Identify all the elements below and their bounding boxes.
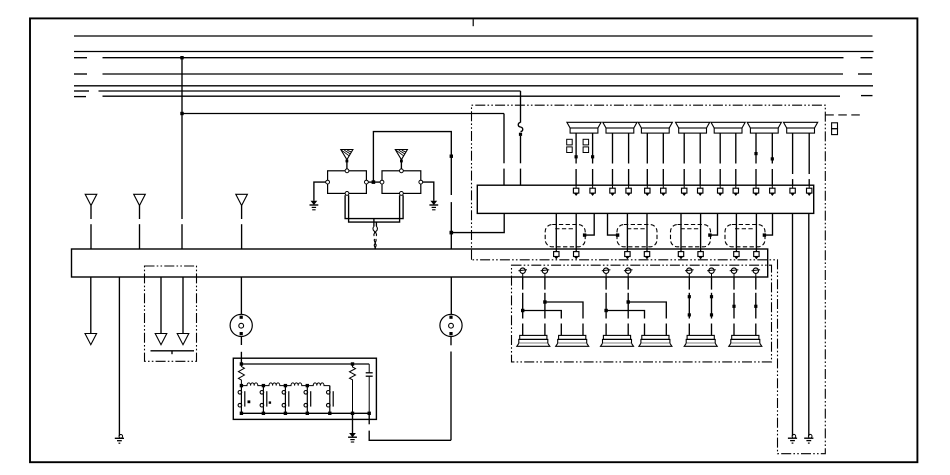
inline terminal node [688, 295, 691, 298]
component boundary injectors (dash-dot) [512, 265, 772, 362]
shield capsule inner dash [627, 228, 647, 230]
wire shielded pair [680, 213, 682, 250]
choke L1 [241, 383, 263, 386]
splice node S2 [591, 155, 594, 158]
wire shielded pair [575, 213, 577, 250]
wire RY1 top [346, 160, 348, 169]
junction node chain [450, 231, 454, 235]
rail node [306, 384, 309, 387]
ground G4 [348, 433, 357, 442]
connector pin upper [698, 249, 703, 259]
wire drop to ECM pin B [520, 136, 522, 163]
choke L4 [307, 383, 330, 386]
rail node [351, 412, 354, 415]
wire coil lead [592, 133, 594, 163]
wire coil lead [808, 133, 810, 174]
wire injector 3 lower [605, 324, 607, 336]
bus wire B4 [103, 73, 844, 75]
wire element top [306, 386, 308, 391]
element marker [269, 401, 271, 403]
wire shielded pair [700, 213, 702, 250]
injector INJ1 [517, 335, 550, 346]
wire drop to ECM pin A lower [503, 169, 505, 186]
connector arrow A4 [85, 334, 97, 345]
ECM pin 8 [698, 185, 703, 196]
wire element bottom [262, 407, 264, 414]
wire injector lower [688, 324, 690, 336]
filter mid rail node [240, 384, 243, 387]
ground G3 [115, 435, 124, 444]
wire injector 1 upper [522, 277, 524, 290]
rail node [284, 412, 287, 415]
injector INJ4 [639, 335, 672, 346]
inline terminal node [754, 305, 757, 308]
wire coil lead [771, 133, 773, 163]
wire element top [240, 386, 242, 391]
splice node S3 [754, 152, 757, 155]
ECM pin 1 [573, 185, 578, 196]
wire injector lower [711, 324, 713, 336]
bus wire B1 [74, 35, 873, 37]
rail node [368, 412, 371, 415]
wire coil lead [719, 133, 721, 163]
wire shield lead 1 [160, 277, 162, 334]
ignition coil M4 [676, 122, 710, 133]
junction node relay link [372, 180, 376, 184]
wire coil lead lower [792, 179, 794, 185]
noise condenser NC2 [440, 314, 462, 336]
wire drop to ECM pin A [503, 114, 505, 164]
splice node chain [450, 155, 453, 158]
wire arrow lead [139, 206, 141, 220]
wire injector 1 mid [522, 293, 524, 319]
wire injector 2 lower [544, 324, 546, 336]
wire condenser 1 lower [240, 337, 242, 346]
bus wire B3 right stub [861, 57, 873, 59]
connector pin lower [624, 268, 633, 277]
bus wire B6 stub [74, 90, 89, 92]
relay pin [345, 169, 349, 173]
choke L3 [285, 383, 307, 386]
shield capsule inner dash [735, 228, 755, 230]
injector INJ6 [729, 335, 762, 346]
wire shield drain [710, 213, 718, 235]
component boundary ECM (dash-dot) [472, 105, 826, 454]
wire injector mid [711, 293, 713, 319]
wire horizontal to ECM [182, 113, 504, 115]
wire vertical feed lower [181, 224, 183, 249]
connector arrow A2 [134, 194, 146, 205]
splice node S4 [771, 157, 774, 160]
wire arrow lead [241, 206, 243, 220]
relay pin [365, 180, 369, 184]
junction node feed [180, 112, 183, 115]
connector pin upper [574, 249, 579, 259]
border tick mark [472, 19, 474, 26]
wire coil lead lower [771, 169, 773, 185]
wire element bottom [329, 407, 331, 414]
wire injector 5/6 upper [688, 277, 690, 290]
shield capsule SH1 [545, 225, 585, 247]
wire coil lead lower [755, 169, 757, 185]
wire coil lead lower [592, 169, 594, 185]
main relay RY1 box [328, 171, 367, 194]
wire shielded pair [555, 213, 557, 250]
twisted pair bracket outer [345, 195, 403, 218]
wire element bottom [284, 407, 286, 414]
wire to condenser 2 [450, 277, 452, 314]
wire injector 5/6 upper [711, 277, 713, 290]
wire to condenser 1 [240, 277, 242, 314]
wire injector 3 mid [605, 293, 607, 319]
connector pin lower [730, 268, 739, 277]
ECM pin 6 [661, 185, 666, 196]
wire coil lead lower [719, 169, 721, 185]
wire injector mid [733, 293, 735, 319]
injector INJ3 [601, 335, 634, 346]
wire condenser 2 lower2 [450, 352, 452, 441]
antenna symbol RY1 (hatched) [341, 150, 353, 160]
connector pin upper [734, 249, 739, 259]
wire ECM ground 1 [792, 213, 794, 436]
wire injector lower [733, 324, 735, 336]
connector pin upper [554, 249, 559, 259]
choke tail corner [329, 386, 331, 390]
twisted pair upper [373, 226, 378, 236]
ignition coil M3 [638, 122, 672, 133]
wire drop to ECM pin B lower [520, 169, 522, 186]
fuse element [518, 122, 523, 131]
wire shielded pair [755, 213, 757, 250]
ECM pin 12 [770, 185, 775, 196]
wire filter ground [352, 413, 354, 433]
ignition coil M6 [747, 122, 781, 133]
capacitor C1 [366, 364, 373, 413]
suppressor element P4 [304, 390, 311, 407]
twisted pair bracket inner [349, 195, 400, 222]
wire coil lead [646, 133, 648, 163]
noise condenser NC1 [230, 314, 252, 336]
wire to connector arrow [90, 277, 92, 334]
wire coil lead lower [646, 169, 648, 185]
wire crossover A2 [545, 302, 583, 319]
bus wire B6 [99, 90, 521, 92]
wire coil lead [612, 133, 614, 163]
wire injector 4 lower [627, 324, 629, 336]
wire injector mid [688, 293, 690, 319]
shield bar tick [171, 351, 173, 354]
boundary stub (dash) [825, 114, 861, 116]
splice node S1 [575, 155, 578, 158]
rail node [328, 412, 331, 415]
wire injector 3 upper [605, 277, 607, 290]
relay pin [400, 192, 404, 196]
bus wire B4 stub [74, 73, 87, 75]
bus wire B3 stub [74, 57, 87, 59]
wire chain lower [450, 202, 452, 249]
suppressor element P3 [282, 390, 289, 407]
connector pin lower [752, 268, 761, 277]
wire arrow lead lower [139, 224, 141, 249]
wire injector mid [755, 293, 757, 319]
bus wire B4 right stub [858, 73, 872, 75]
connector pin lower [518, 268, 527, 277]
injector INJ2 [556, 335, 589, 346]
connector arrow A5 [155, 334, 167, 345]
junction node on B3 [180, 56, 183, 59]
ground G-RY1 [310, 201, 319, 210]
wire element top [284, 386, 286, 391]
wire coil lead lower [662, 169, 664, 185]
shield capsule inner dash [555, 228, 575, 230]
connector arrow A3 [236, 194, 248, 205]
wire injector 4 upper [627, 277, 629, 290]
wire relay link up-over [373, 132, 451, 195]
ECM pin 4 [626, 185, 631, 196]
ECM pin 5 [645, 185, 650, 196]
wire coil lead [628, 133, 630, 163]
wire T2 left lower [560, 324, 562, 336]
wire element top [262, 386, 264, 391]
wire shielded pair [646, 213, 648, 250]
connector pin lower [541, 268, 550, 277]
bus wire B3 [103, 57, 844, 59]
bus wire B2 [74, 51, 874, 53]
resistor R1 (zigzag) [238, 364, 244, 386]
relay pin [345, 192, 349, 196]
wire T4 right lower [665, 324, 667, 336]
wire condenser 2 lower [450, 337, 452, 346]
wire coil lead [662, 133, 664, 163]
wire injector lower [755, 324, 757, 336]
wire T4 left lower [644, 324, 646, 336]
ignition coil M7 [784, 122, 818, 133]
wire capacitor out [368, 413, 370, 424]
wire coil lead lower [808, 179, 810, 185]
wire relay link [368, 181, 380, 183]
relay pin [400, 169, 404, 173]
main relay RY2 box [382, 171, 421, 194]
twisted pair lower [374, 239, 376, 249]
rail node [262, 384, 265, 387]
wire condenser 1 lower2 [240, 352, 242, 364]
connector pin upper [644, 249, 649, 259]
wire coil lead [755, 133, 757, 163]
ground G-RY2 [429, 201, 438, 210]
wire coil lead [699, 133, 701, 163]
shield drain node [583, 233, 586, 236]
inline terminal node [710, 313, 713, 316]
wire to ground left [118, 277, 120, 436]
wire shielded pair [626, 213, 628, 250]
wire coil lead lower [628, 169, 630, 185]
injector INJ5 [684, 335, 717, 346]
rail node [240, 362, 243, 365]
crossover node A1 [521, 309, 524, 312]
wire shielded pair [735, 213, 737, 250]
crossover node B2 [627, 300, 630, 303]
wire arrow lead lower [241, 224, 243, 249]
connector pin upper [678, 249, 683, 259]
connector arrow A1 [85, 194, 97, 205]
wire coil lead [792, 133, 794, 174]
wire injector 2 mid [544, 293, 546, 319]
wire shield drain [585, 213, 595, 235]
wire shield drain [764, 213, 772, 235]
wire coil lead [683, 133, 685, 163]
ECM pin 9 [718, 185, 723, 196]
RY2 antenna node [400, 160, 403, 163]
bus wire B7 stub [74, 96, 86, 98]
ground G1 [788, 434, 797, 443]
wire drop from B6 [520, 91, 522, 123]
relay pin [326, 180, 330, 184]
wire injector 1 lower [522, 324, 524, 336]
wire coil lead lower [612, 169, 614, 185]
shield drain node [708, 233, 711, 236]
ECM pin 13 [790, 185, 795, 196]
wire shield lead 2 [182, 277, 184, 334]
wire RY2 top [400, 160, 402, 169]
element marker [248, 400, 251, 403]
wire ECM ground 2 [808, 213, 810, 436]
relay pin [419, 180, 423, 184]
wire capacitor out lower [369, 431, 451, 441]
connector pin lower [707, 268, 716, 277]
connector pin lower [685, 268, 694, 277]
main connector box [72, 249, 768, 277]
ECM connector box [477, 185, 813, 213]
connector pin upper [754, 249, 759, 259]
crossover node A2 [543, 300, 546, 303]
wire crossover B2 [628, 302, 666, 319]
bus wire B7 [103, 95, 841, 97]
ECM pin 11 [753, 185, 758, 196]
wire injector 7/8 upper [755, 277, 757, 290]
rail node [240, 412, 243, 415]
wire chain to ECM [451, 213, 504, 232]
ECM pin 10 [733, 185, 738, 196]
wire crossover B1 [606, 311, 644, 319]
wire coil lead lower [683, 169, 685, 185]
resistor R2 (zigzag) [350, 364, 356, 413]
filter bottom rail [241, 412, 369, 414]
filter top rail [241, 363, 369, 365]
bus wire B7 right stub [861, 95, 873, 97]
rail node [351, 362, 354, 365]
ECM pin 3 [610, 185, 615, 196]
suppressor element P5 [327, 390, 334, 407]
wire T2 right lower [582, 324, 584, 336]
wire shield drain [608, 213, 618, 235]
wire coil lead lower [575, 169, 577, 185]
connector arrow A6 [177, 334, 189, 345]
component boundary sensor (dash-dot) [145, 266, 197, 361]
wire coil lead lower [735, 169, 737, 185]
connector block C1b [583, 139, 589, 152]
shield capsule SH4 [725, 225, 765, 247]
antenna symbol RY2 (hatched) [395, 150, 407, 160]
wire arrow lead [90, 206, 92, 220]
ground G2 [804, 434, 813, 443]
ignition coil M5 [711, 122, 745, 133]
wire element bottom [240, 407, 242, 414]
RY1 antenna node [346, 160, 349, 163]
suppressor element P1 [238, 390, 245, 407]
shield capsule inner dash [681, 228, 701, 230]
wire coil lead [575, 133, 577, 163]
connector pin upper [625, 249, 630, 259]
ECM pin 2 [590, 185, 595, 196]
shield capsule SH2 [617, 225, 657, 247]
relay pin [380, 180, 384, 184]
wire RY1 left to ground [314, 182, 326, 201]
shield drain node [763, 233, 766, 236]
suppressor element P2 [260, 390, 267, 407]
shield bar [151, 350, 195, 352]
bus wire B5 [74, 85, 873, 87]
wire injector 7/8 upper [733, 277, 735, 290]
wire crossover A1 [523, 311, 562, 319]
rail node [262, 412, 265, 415]
connector pin lower [602, 268, 611, 277]
wire arrow lead lower [90, 224, 92, 249]
twisted pair stem [374, 219, 377, 226]
connector block C1a [567, 139, 573, 152]
ignition coil M1 [567, 122, 601, 133]
noise filter box [233, 358, 376, 419]
wire injector 4 mid [627, 293, 629, 319]
inline terminal node [688, 313, 691, 316]
wire RY2 right to ground [423, 182, 434, 201]
rail node [284, 384, 287, 387]
shield capsule SH3 [671, 225, 711, 247]
wire vertical feed [181, 58, 183, 219]
inline terminal node [710, 295, 713, 298]
wire element bottom [306, 407, 308, 414]
wire coil lead lower [699, 169, 701, 185]
wire element top [329, 389, 331, 391]
ECM pin 14 [807, 185, 812, 196]
choke L2 [263, 383, 285, 386]
shield drain node [616, 233, 619, 236]
ignition coil M2 [603, 122, 637, 133]
rail node [306, 412, 309, 415]
wire coil lead [735, 133, 737, 163]
crossover node B1 [604, 309, 607, 312]
inline terminal node [732, 305, 735, 308]
fuse end node [519, 133, 522, 136]
connector index block [832, 123, 838, 135]
ECM pin 7 [682, 185, 687, 196]
wire injector 2 upper [544, 277, 546, 290]
